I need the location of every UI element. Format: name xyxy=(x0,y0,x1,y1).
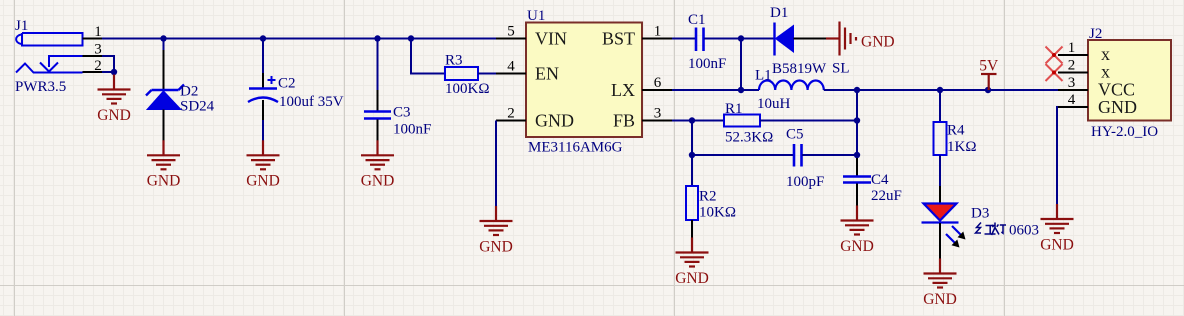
wire J2 pin4 down xyxy=(1057,107,1058,204)
ground GND C2 xyxy=(247,140,280,169)
svg-text:5V: 5V xyxy=(979,58,999,75)
junction node R4 xyxy=(937,87,943,93)
junction node LX xyxy=(738,87,744,93)
junction node C3 xyxy=(374,35,380,41)
resistor R4 xyxy=(934,122,947,155)
wire FB down xyxy=(691,121,693,156)
svg-text:C4: C4 xyxy=(871,172,889,188)
wire BST to C1 xyxy=(672,38,695,40)
svg-text:3: 3 xyxy=(94,42,102,58)
svg-text:100pF: 100pF xyxy=(786,174,824,190)
junction node rail-comp xyxy=(854,152,860,158)
svg-text:10KΩ: 10KΩ xyxy=(699,205,736,221)
svg-text:C3: C3 xyxy=(393,105,411,121)
svg-text:100uf 35V: 100uf 35V xyxy=(279,94,344,110)
junction node BST xyxy=(738,35,744,41)
wire C1 to D1 xyxy=(704,38,774,40)
svg-text:LX: LX xyxy=(611,80,635,100)
junction node C2 xyxy=(260,35,266,41)
svg-text:D2: D2 xyxy=(180,84,198,100)
svg-text:J1: J1 xyxy=(15,18,28,34)
connector J2 xyxy=(1088,40,1171,121)
capacitor C1 xyxy=(696,28,704,52)
svg-text:3: 3 xyxy=(1068,75,1076,91)
junction node FB xyxy=(689,117,695,123)
svg-text:1: 1 xyxy=(94,24,102,40)
wire pin2 to junction xyxy=(102,71,114,73)
svg-text:R4: R4 xyxy=(947,123,965,139)
pin 1 J2 xyxy=(1058,54,1088,56)
wire comp line xyxy=(692,154,793,156)
svg-text:2: 2 xyxy=(94,58,102,74)
ground GND D3 xyxy=(924,259,957,288)
wire D1 to GND port xyxy=(794,38,827,40)
svg-text:GND: GND xyxy=(840,238,874,255)
junction node EN xyxy=(408,35,414,41)
wire C2 top lead xyxy=(262,39,264,74)
pin 2 GND xyxy=(496,120,526,122)
svg-text:3: 3 xyxy=(654,106,662,122)
ground GND R2 xyxy=(676,238,709,267)
svg-text:D1: D1 xyxy=(770,5,788,21)
junction node SW xyxy=(854,87,860,93)
svg-text:1: 1 xyxy=(1068,40,1076,56)
svg-text:J2: J2 xyxy=(1089,26,1102,42)
wire EN branch xyxy=(411,39,445,74)
svg-text:R1: R1 xyxy=(725,101,743,117)
no-erc cross pin2 xyxy=(1046,64,1063,81)
svg-text:C1: C1 xyxy=(688,12,706,28)
svg-text:BST: BST xyxy=(602,29,635,49)
wire C4 top lead xyxy=(856,158,858,176)
svg-text:GND: GND xyxy=(535,111,574,131)
pin 4 J2 GND xyxy=(1058,106,1088,108)
capacitor C2 polarized xyxy=(248,76,278,102)
ground GND SL rotated xyxy=(826,22,856,56)
svg-text:D3: D3 xyxy=(971,206,989,222)
junction J1 ground node xyxy=(111,69,117,75)
svg-text:GND: GND xyxy=(147,172,181,189)
wire C4 bottom lead xyxy=(856,184,858,207)
capacitor C3 xyxy=(364,112,391,119)
svg-text:5: 5 xyxy=(507,24,515,40)
junction node rail-FB xyxy=(854,117,860,123)
ground GND C4 xyxy=(841,206,874,235)
svg-text:C5: C5 xyxy=(786,127,804,143)
wire R2 bottom xyxy=(691,220,693,238)
pin 3 FB xyxy=(642,120,672,122)
junction node 5V xyxy=(985,87,991,93)
svg-text:R3: R3 xyxy=(445,53,463,69)
pin 1 BST xyxy=(642,38,672,40)
svg-text:2: 2 xyxy=(1068,58,1076,74)
wire top rail xyxy=(102,38,496,40)
wire D3 bottom xyxy=(939,223,941,259)
svg-text:R2: R2 xyxy=(699,189,717,205)
wire R4 top xyxy=(939,90,941,122)
svg-text:x: x xyxy=(1101,62,1110,82)
wire D2 bottom lead xyxy=(163,110,165,141)
svg-text:SD24: SD24 xyxy=(180,99,215,115)
svg-text:FB: FB xyxy=(613,111,635,131)
svg-text:ME3116AM6G: ME3116AM6G xyxy=(528,140,623,156)
svg-text:100KΩ: 100KΩ xyxy=(445,81,489,97)
pin 3 J2 VCC xyxy=(1058,89,1088,91)
wire U1 GND pin down xyxy=(495,121,497,207)
wire rail x857 xyxy=(856,90,858,158)
svg-text:GND: GND xyxy=(861,34,895,51)
svg-text:GND: GND xyxy=(246,172,280,189)
ground GND D2 xyxy=(147,140,180,169)
svg-text:GND: GND xyxy=(1040,237,1074,254)
wire C5 to rail xyxy=(802,154,857,156)
capacitor C5 xyxy=(794,144,802,167)
pin 1 J1 xyxy=(83,38,103,40)
label 红灯 (drawn glyphs) xyxy=(976,223,1007,236)
wire BST-LX vertical xyxy=(740,39,742,91)
svg-text:GND: GND xyxy=(923,291,957,308)
svg-text:B5819W: B5819W xyxy=(772,61,827,77)
svg-text:100nF: 100nF xyxy=(688,56,726,72)
pin 4 EN xyxy=(496,73,526,75)
ground GND J2 xyxy=(1041,204,1074,233)
diode D1 xyxy=(775,23,794,56)
svg-text:1KΩ: 1KΩ xyxy=(947,139,976,155)
ground GND C3 xyxy=(361,140,394,169)
wire R3 to EN pin xyxy=(478,73,496,75)
wire LX out xyxy=(672,89,759,91)
wire C2 bottom lead xyxy=(262,100,264,120)
capacitor C4 xyxy=(843,177,871,183)
svg-text:4: 4 xyxy=(507,59,515,75)
svg-text:EN: EN xyxy=(535,64,559,84)
junction node comp xyxy=(689,152,695,158)
junction node D2 xyxy=(160,35,166,41)
svg-text:L1: L1 xyxy=(755,68,772,84)
ground GND J1 xyxy=(98,75,131,104)
svg-text:GND: GND xyxy=(1098,97,1137,117)
svg-text:SL: SL xyxy=(832,61,850,77)
wire L1 to 5V rail xyxy=(824,89,1058,91)
wire R2 top xyxy=(691,155,693,186)
resistor R1 xyxy=(724,115,760,127)
svg-text:HY-2.0_IO: HY-2.0_IO xyxy=(1091,124,1158,140)
svg-text:1: 1 xyxy=(654,24,662,40)
no-erc cross pin1 xyxy=(1046,47,1063,64)
svg-text:GND: GND xyxy=(675,270,709,287)
wire C3 bottom lead xyxy=(377,120,379,141)
svg-text:GND: GND xyxy=(479,239,513,256)
svg-text:U1: U1 xyxy=(527,8,545,24)
wire D2 top lead xyxy=(163,39,165,51)
wire R4 to D3 xyxy=(939,155,941,186)
wire C3 top lead xyxy=(377,39,379,91)
LED D3 xyxy=(922,204,966,248)
diode D2 zener xyxy=(146,85,184,110)
svg-text:100nF: 100nF xyxy=(393,122,431,138)
connector J1 xyxy=(16,33,114,73)
wire R1 to rail xyxy=(760,120,857,122)
pin 3 J1 xyxy=(83,55,103,57)
inductor L1 xyxy=(759,80,824,90)
IC U1 ME3116AM6G xyxy=(526,23,642,138)
resistor R2 xyxy=(686,186,698,220)
svg-text:4: 4 xyxy=(1068,92,1076,108)
pin 5 VIN xyxy=(496,38,526,40)
svg-text:GND: GND xyxy=(97,107,131,124)
svg-text:PWR3.5: PWR3.5 xyxy=(15,79,66,95)
pin 2 J1 xyxy=(83,71,103,73)
svg-text:22uF: 22uF xyxy=(871,188,902,204)
svg-text:C2: C2 xyxy=(278,76,296,92)
ground GND U1 xyxy=(480,206,513,235)
svg-text:52.3KΩ: 52.3KΩ xyxy=(725,130,773,146)
pin 6 LX xyxy=(642,89,672,91)
resistor R3 xyxy=(445,67,478,80)
svg-text:6: 6 xyxy=(654,75,662,91)
svg-text:10uH: 10uH xyxy=(757,96,791,112)
wire pin3 to junction xyxy=(102,56,114,72)
wire FB out xyxy=(672,120,724,122)
svg-text:VIN: VIN xyxy=(535,29,567,49)
svg-text:0603: 0603 xyxy=(1009,223,1039,239)
pin 2 J2 xyxy=(1058,72,1088,74)
power port 5V xyxy=(981,74,997,90)
svg-text:2: 2 xyxy=(507,106,515,122)
svg-text:GND: GND xyxy=(361,172,395,189)
